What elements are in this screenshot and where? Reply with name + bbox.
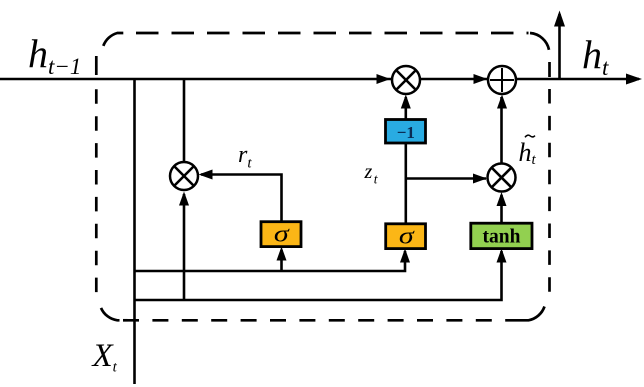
svg-text:σ: σ [274, 220, 291, 247]
svg-text:Xt: Xt [91, 338, 118, 376]
svg-text:tanh: tanh [483, 227, 521, 248]
svg-text:σ: σ [399, 222, 416, 249]
svg-text:zt: zt [364, 161, 379, 187]
svg-text:rt: rt [238, 142, 252, 172]
svg-text:−1: −1 [397, 123, 415, 142]
svg-text:ht−1: ht−1 [28, 31, 81, 79]
svg-text:ht: ht [519, 138, 537, 168]
svg-text:ht: ht [582, 32, 609, 80]
